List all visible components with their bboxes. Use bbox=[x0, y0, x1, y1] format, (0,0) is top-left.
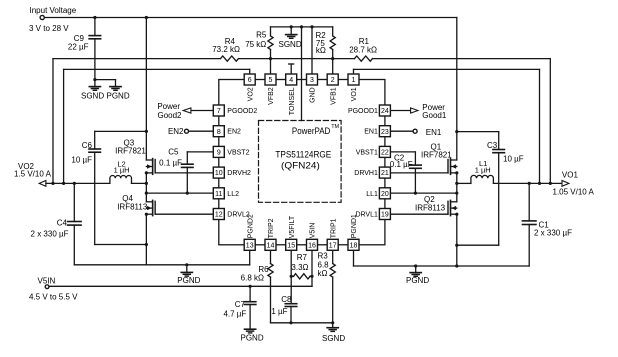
svg-text:PGND: PGND bbox=[177, 276, 200, 285]
svg-text:Power: Power bbox=[157, 102, 180, 111]
svg-text:TM: TM bbox=[331, 124, 339, 130]
svg-text:EN2: EN2 bbox=[227, 129, 241, 136]
svg-text:10: 10 bbox=[215, 170, 223, 177]
svg-text:C5: C5 bbox=[168, 147, 179, 156]
svg-text:R6: R6 bbox=[258, 265, 269, 274]
svg-text:3 V to 28 V: 3 V to 28 V bbox=[29, 24, 69, 33]
svg-text:PGND: PGND bbox=[406, 276, 429, 285]
svg-text:V5IN: V5IN bbox=[38, 277, 56, 286]
svg-text:24: 24 bbox=[381, 108, 389, 115]
svg-text:V5FILT: V5FILT bbox=[289, 215, 296, 238]
svg-text:PGND: PGND bbox=[107, 91, 130, 100]
svg-text:R5: R5 bbox=[256, 30, 267, 39]
svg-text:SGND: SGND bbox=[322, 334, 345, 343]
svg-text:VBST2: VBST2 bbox=[227, 149, 249, 156]
svg-text:(QFN24): (QFN24) bbox=[281, 160, 320, 170]
svg-text:1: 1 bbox=[352, 77, 356, 84]
svg-text:EN1: EN1 bbox=[364, 129, 378, 136]
svg-text:19: 19 bbox=[381, 212, 389, 219]
svg-text:IRF7821: IRF7821 bbox=[421, 150, 452, 159]
svg-text:SGND: SGND bbox=[81, 91, 104, 100]
svg-text:22 µF: 22 µF bbox=[68, 42, 89, 51]
svg-text:C8: C8 bbox=[281, 295, 292, 304]
svg-text:13: 13 bbox=[246, 242, 254, 249]
svg-text:0.1 µF: 0.1 µF bbox=[159, 159, 182, 168]
svg-text:IRF8113: IRF8113 bbox=[117, 202, 148, 211]
svg-text:23: 23 bbox=[381, 129, 389, 136]
svg-text:SGND: SGND bbox=[279, 40, 302, 49]
svg-text:DRVH2: DRVH2 bbox=[227, 170, 251, 177]
svg-text:8: 8 bbox=[217, 129, 221, 136]
svg-text:C6: C6 bbox=[82, 141, 93, 150]
svg-text:0.1 µF: 0.1 µF bbox=[390, 160, 413, 169]
svg-text:1 µH: 1 µH bbox=[114, 166, 130, 175]
svg-text:2 x 330 µF: 2 x 330 µF bbox=[31, 230, 69, 239]
svg-text:4: 4 bbox=[289, 77, 293, 84]
svg-text:PGOOD1: PGOOD1 bbox=[348, 108, 378, 115]
svg-text:4.5 V to 5.5 V: 4.5 V to 5.5 V bbox=[29, 293, 78, 302]
svg-text:14: 14 bbox=[267, 242, 275, 249]
svg-text:TPS51124RGE: TPS51124RGE bbox=[275, 150, 331, 160]
svg-text:3.3Ω: 3.3Ω bbox=[291, 263, 308, 272]
svg-text:IRF8113: IRF8113 bbox=[415, 204, 446, 213]
svg-text:R3: R3 bbox=[318, 251, 329, 260]
svg-text:Q2: Q2 bbox=[424, 195, 435, 204]
svg-text:1.5 V/10 A: 1.5 V/10 A bbox=[14, 170, 52, 179]
svg-text:7: 7 bbox=[217, 108, 221, 115]
svg-text:DRVL1: DRVL1 bbox=[355, 212, 378, 219]
svg-text:VFB1: VFB1 bbox=[330, 87, 337, 105]
svg-text:18: 18 bbox=[350, 242, 358, 249]
svg-text:1 µH: 1 µH bbox=[475, 166, 491, 175]
svg-text:PGND2: PGND2 bbox=[247, 214, 254, 238]
svg-text:11: 11 bbox=[215, 191, 222, 198]
svg-text:TRIP2: TRIP2 bbox=[268, 218, 275, 238]
svg-text:4.7 µF: 4.7 µF bbox=[223, 310, 246, 319]
svg-text:DRVH1: DRVH1 bbox=[354, 170, 378, 177]
svg-text:TRIP1: TRIP1 bbox=[330, 218, 337, 238]
svg-text:75 kΩ: 75 kΩ bbox=[245, 40, 266, 49]
svg-text:PGND1: PGND1 bbox=[351, 214, 358, 238]
svg-text:C4: C4 bbox=[57, 219, 68, 228]
svg-text:VO2: VO2 bbox=[247, 87, 254, 101]
svg-text:V5IN: V5IN bbox=[310, 223, 317, 239]
svg-text:22: 22 bbox=[381, 150, 389, 157]
svg-text:R7: R7 bbox=[297, 253, 308, 262]
svg-text:2: 2 bbox=[331, 77, 335, 84]
svg-text:EN2: EN2 bbox=[168, 127, 184, 136]
svg-text:6: 6 bbox=[248, 77, 252, 84]
svg-text:15: 15 bbox=[287, 242, 295, 249]
svg-text:kΩ: kΩ bbox=[316, 46, 326, 55]
svg-text:PGND: PGND bbox=[241, 333, 264, 342]
svg-text:21: 21 bbox=[381, 170, 389, 177]
svg-text:28.7 kΩ: 28.7 kΩ bbox=[349, 46, 377, 55]
svg-text:GND: GND bbox=[310, 87, 317, 103]
svg-text:1.05 V/10 A: 1.05 V/10 A bbox=[553, 187, 595, 196]
svg-text:20: 20 bbox=[381, 191, 389, 198]
svg-text:10 µF: 10 µF bbox=[503, 155, 524, 164]
svg-text:1 µF: 1 µF bbox=[271, 307, 287, 316]
svg-text:C3: C3 bbox=[487, 141, 498, 150]
svg-text:6.8 kΩ: 6.8 kΩ bbox=[241, 274, 264, 283]
svg-text:EN1: EN1 bbox=[426, 128, 442, 137]
svg-text:LL1: LL1 bbox=[366, 191, 378, 198]
svg-text:2 x 330 µF: 2 x 330 µF bbox=[534, 228, 572, 237]
svg-text:TONSEL: TONSEL bbox=[289, 87, 296, 115]
svg-text:VBST1: VBST1 bbox=[356, 149, 378, 156]
svg-text:LL2: LL2 bbox=[227, 191, 239, 198]
svg-text:C7: C7 bbox=[235, 300, 246, 309]
svg-text:9: 9 bbox=[217, 150, 221, 157]
svg-text:R1: R1 bbox=[359, 37, 370, 46]
svg-text:Input Voltage: Input Voltage bbox=[30, 6, 77, 15]
svg-text:PowerPAD: PowerPAD bbox=[292, 126, 331, 136]
svg-text:5: 5 bbox=[269, 77, 273, 84]
svg-text:12: 12 bbox=[215, 212, 223, 219]
svg-text:73.2 kΩ: 73.2 kΩ bbox=[212, 45, 240, 54]
svg-text:VFB2: VFB2 bbox=[268, 87, 275, 105]
svg-text:Good2: Good2 bbox=[157, 111, 182, 120]
svg-text:10 µF: 10 µF bbox=[71, 155, 92, 164]
svg-text:VO1: VO1 bbox=[562, 170, 579, 179]
svg-text:17: 17 bbox=[329, 242, 337, 249]
svg-text:IRF7821: IRF7821 bbox=[115, 146, 146, 155]
svg-text:3: 3 bbox=[310, 77, 314, 84]
svg-text:PGOOD2: PGOOD2 bbox=[227, 108, 257, 115]
svg-text:Good1: Good1 bbox=[422, 111, 447, 120]
svg-text:kΩ: kΩ bbox=[318, 269, 328, 278]
svg-text:VO1: VO1 bbox=[351, 87, 358, 101]
svg-text:16: 16 bbox=[308, 242, 316, 249]
